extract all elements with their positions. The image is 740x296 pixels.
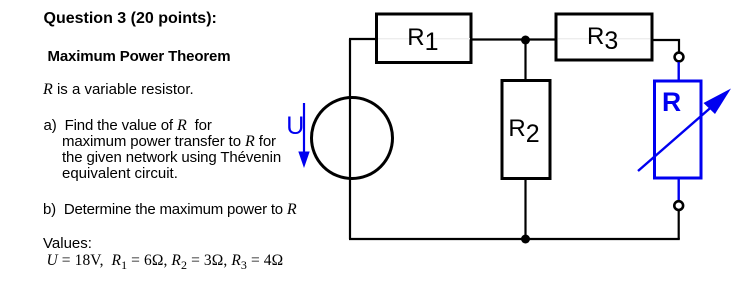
label R3 xyxy=(587,24,618,49)
item a line 1 xyxy=(44,118,212,134)
wire: R3 to top terminal xyxy=(652,40,679,52)
label R2 xyxy=(508,116,539,141)
bottom terminal (open circle) xyxy=(674,201,683,210)
wire: node A down to R2 xyxy=(524,40,526,81)
top terminal (open circle) xyxy=(675,53,684,62)
node A (junction dot top) xyxy=(521,36,530,45)
item a line 3 xyxy=(62,150,281,165)
subtitle xyxy=(48,49,231,64)
wire: blue lead to variable resistor top xyxy=(678,62,680,82)
voltage source U1 (circle) xyxy=(312,98,393,179)
values heading xyxy=(43,236,92,251)
item b xyxy=(43,202,297,218)
resistor R3 (box) xyxy=(556,14,652,60)
wire: left vertical branch through source xyxy=(349,39,351,239)
wire: R2 down to node B xyxy=(524,179,526,240)
item a line 4 xyxy=(62,166,178,181)
wire: blue lead from variable resistor bottom xyxy=(678,178,680,202)
faint trace in R3 xyxy=(558,38,650,40)
source arrow U (blue) xyxy=(303,103,305,156)
resistor R1 (box) xyxy=(377,14,472,63)
wire: bottom horizontal xyxy=(349,238,680,240)
question heading xyxy=(44,11,217,27)
wire: bottom right lead xyxy=(678,211,680,240)
resistor R2 (box) xyxy=(502,81,550,179)
node B (junction dot bottom) xyxy=(521,235,530,244)
label R (variable) xyxy=(662,89,681,116)
label U xyxy=(286,114,304,139)
intro line xyxy=(43,82,194,98)
values equation xyxy=(47,253,284,271)
label R1 xyxy=(407,25,438,50)
wire: R1 to node A xyxy=(471,38,556,40)
faint trace in R1 xyxy=(378,38,470,40)
arrow of variable resistor xyxy=(638,103,716,171)
item a line 2 xyxy=(62,134,276,150)
wire: top-left horizontal to R1 xyxy=(349,38,377,40)
variable resistor R (blue box) xyxy=(655,81,702,178)
